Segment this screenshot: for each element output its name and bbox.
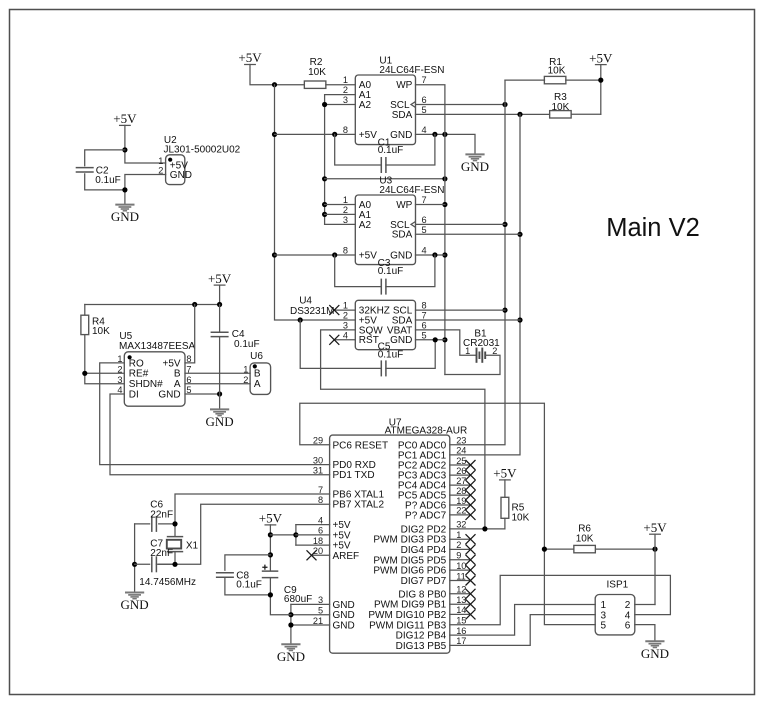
svg-text:8: 8 <box>343 246 348 256</box>
wire U2 pin2 to ground <box>125 175 166 205</box>
wire +5V feed to U7 power rail <box>269 525 271 571</box>
wire SCL rail <box>450 80 505 445</box>
svg-text:10K: 10K <box>576 533 594 544</box>
svg-text:5: 5 <box>601 620 607 631</box>
IC U7 ATMEGA328-AUR <box>330 435 450 653</box>
svg-text:PC6 RESET: PC6 RESET <box>333 440 389 451</box>
svg-text:23: 23 <box>456 436 466 446</box>
resistor R1 10K (SCL pullup) <box>505 79 545 81</box>
svg-text:JL301-50002U02: JL301-50002U02 <box>164 144 241 155</box>
capacitor C3 0.1uF <box>335 255 382 287</box>
wire U7 PB4/MISO to ISP pin1 <box>450 605 595 636</box>
svg-text:+5V: +5V <box>163 358 181 369</box>
power +5V (top left, feeds R2 and EEPROM rail) <box>245 64 256 66</box>
svg-text:1: 1 <box>465 346 470 356</box>
svg-text:PB7 XTAL2: PB7 XTAL2 <box>333 500 385 511</box>
connector U6 <box>250 363 271 395</box>
wire U5 +5V pin8 up to +5V row <box>185 305 195 363</box>
svg-text:15: 15 <box>456 616 466 626</box>
svg-text:6: 6 <box>625 620 631 631</box>
svg-text:U6: U6 <box>250 351 263 362</box>
ground under U1 <box>465 154 484 160</box>
svg-text:WP: WP <box>396 80 412 91</box>
svg-text:GND: GND <box>641 646 669 661</box>
svg-text:9: 9 <box>456 551 461 561</box>
wire U7 PB5/SCK to ISP pin3 <box>450 615 595 646</box>
svg-text:24: 24 <box>456 446 466 456</box>
wire U5 RO down to U7 RXD <box>100 363 330 465</box>
resistor R4 10K <box>84 305 86 316</box>
svg-text:2: 2 <box>343 311 348 321</box>
svg-text:2: 2 <box>158 166 163 176</box>
svg-text:28: 28 <box>456 486 466 496</box>
svg-text:20: 20 <box>313 546 323 556</box>
svg-text:0.1uF: 0.1uF <box>378 349 404 360</box>
wire U4 GND row <box>416 339 445 341</box>
svg-text:4: 4 <box>422 246 427 256</box>
wire U1 SDA row to R3 <box>416 113 550 115</box>
svg-text:32: 32 <box>456 520 466 530</box>
svg-text:26: 26 <box>456 466 466 476</box>
ground under crystal <box>125 593 144 599</box>
wire U4 SCL <box>416 309 506 311</box>
resistor R2 <box>304 81 326 88</box>
no-connect X U4 pin4 RST <box>334 339 355 341</box>
wire U5 A to U6 pin2 <box>185 383 250 385</box>
svg-text:11: 11 <box>456 571 466 581</box>
svg-text:RE#: RE# <box>129 369 149 380</box>
wire U7 PB3/MOSI to ISP pin4 <box>450 575 671 624</box>
svg-text:DIG7 PD7: DIG7 PD7 <box>401 576 447 587</box>
svg-text:0.1uF: 0.1uF <box>378 266 404 277</box>
svg-text:5: 5 <box>318 606 323 616</box>
svg-text:0.1uF: 0.1uF <box>236 580 262 591</box>
svg-text:DIG4 PD4: DIG4 PD4 <box>401 545 447 556</box>
svg-text:DI: DI <box>129 389 139 400</box>
svg-text:GND: GND <box>390 130 412 141</box>
svg-text:1: 1 <box>343 195 348 205</box>
resistor R3 10K (SDA pullup) <box>550 111 572 118</box>
wire U3 A2 <box>325 223 356 225</box>
wire R2 to U1 pin1 <box>326 84 355 86</box>
svg-text:X1: X1 <box>186 541 199 552</box>
wire U7 XTAL2 to crystal bottom rail <box>156 504 329 564</box>
svg-text:+5V: +5V <box>208 271 232 286</box>
wire U1 GND row to ground <box>416 134 476 154</box>
wire U5 B to U6 pin1 <box>185 372 250 374</box>
wire U1 A2 <box>325 104 356 106</box>
svg-text:GND: GND <box>390 250 412 261</box>
svg-text:0.1uF: 0.1uF <box>234 339 260 350</box>
svg-text:14.7456MHz: 14.7456MHz <box>139 577 196 588</box>
svg-text:GND: GND <box>121 597 149 612</box>
svg-text:5: 5 <box>422 330 427 340</box>
power +5V (above C4/U5) <box>214 284 225 286</box>
svg-text:6: 6 <box>422 215 427 225</box>
svg-text:8: 8 <box>422 301 427 311</box>
svg-text:AREF: AREF <box>333 551 360 562</box>
resistor R5 10K <box>501 497 509 518</box>
wire +5V distribution rail <box>275 85 356 320</box>
svg-text:+5V: +5V <box>259 511 283 526</box>
svg-text:13: 13 <box>456 595 466 605</box>
wire U5 RE# row <box>85 372 125 374</box>
svg-text:+5V: +5V <box>643 520 667 535</box>
svg-text:1: 1 <box>158 156 163 166</box>
svg-text:DIG 8 PB0: DIG 8 PB0 <box>398 589 446 600</box>
svg-text:3: 3 <box>318 595 323 605</box>
svg-text:2: 2 <box>343 205 348 215</box>
wire U7 PD2 row <box>450 528 505 530</box>
svg-text:GND: GND <box>333 621 355 632</box>
wire U1 WP / WP-GND rail <box>416 85 445 375</box>
power +5V (above U2) <box>120 124 131 126</box>
wire U7 GND pins rail <box>290 604 292 644</box>
power +5V (above U7) <box>265 524 276 526</box>
svg-text:21: 21 <box>313 616 323 626</box>
svg-text:A2: A2 <box>359 100 372 111</box>
svg-text:1: 1 <box>343 301 348 311</box>
svg-text:0.1uF: 0.1uF <box>378 145 404 156</box>
svg-text:PWM DIG10 PB2: PWM DIG10 PB2 <box>368 610 446 621</box>
svg-text:Main V2: Main V2 <box>606 214 700 242</box>
svg-text:2: 2 <box>492 346 497 356</box>
svg-text:3: 3 <box>343 95 348 105</box>
svg-text:25: 25 <box>456 456 466 466</box>
wire U4 VBAT to battery <box>416 330 477 355</box>
ground under ISP <box>645 641 664 647</box>
wire +5V to ISP pin2 <box>635 604 655 606</box>
wire link address rail to WP/GND rail <box>325 178 445 180</box>
svg-text:10: 10 <box>456 561 466 571</box>
svg-text:680uF: 680uF <box>284 594 312 605</box>
power +5V (above ISP) <box>650 533 661 535</box>
wire address rail (A1/A2 down to U3) <box>324 95 326 225</box>
capacitor C8 0.1uF <box>225 555 271 570</box>
svg-text:1: 1 <box>456 530 461 540</box>
svg-text:16: 16 <box>456 626 466 636</box>
capacitor C9 680uF (polarized) <box>262 571 279 578</box>
connector U2 JL301-50002U02 <box>166 155 185 185</box>
svg-text:24LC64F-ESN: 24LC64F-ESN <box>379 65 444 76</box>
wire U4 SQW to PD2 <box>321 330 485 529</box>
wire U7 RESET to R6/ISP <box>300 403 595 624</box>
svg-text:GND: GND <box>170 170 192 181</box>
svg-text:24LC64F-ESN: 24LC64F-ESN <box>379 185 444 196</box>
capacitor C4 0.1uF <box>219 305 221 332</box>
IC U3 24LC64F-ESN <box>355 195 415 265</box>
svg-text:30: 30 <box>313 455 323 465</box>
svg-text:3: 3 <box>343 320 348 330</box>
svg-text:PD1 TXD: PD1 TXD <box>333 470 375 481</box>
svg-text:22: 22 <box>456 506 466 516</box>
wire U3 SDA <box>416 233 521 235</box>
svg-text:+5V: +5V <box>238 50 262 65</box>
svg-text:A2: A2 <box>359 220 372 231</box>
no-connect X U4 pin1 32KHZ <box>334 309 355 311</box>
svg-text:10K: 10K <box>552 102 570 113</box>
wire <box>250 65 304 85</box>
svg-text:19: 19 <box>456 496 466 506</box>
clock chevron U1 SCL <box>411 102 415 107</box>
ground under U7 <box>281 644 300 650</box>
svg-text:GND: GND <box>390 335 412 346</box>
svg-text:18: 18 <box>313 536 323 546</box>
wire U3 A1 <box>325 213 356 215</box>
wire U3 +5V row <box>275 254 356 256</box>
svg-text:4: 4 <box>343 330 348 340</box>
svg-text:P? ADC7: P? ADC7 <box>405 510 447 521</box>
svg-text:SDA: SDA <box>392 110 413 121</box>
svg-text:5: 5 <box>422 225 427 235</box>
svg-text:RST: RST <box>359 335 379 346</box>
wire U3 GND row <box>416 254 445 256</box>
ground under U2 <box>115 205 134 211</box>
capacitor C6 22nF <box>135 523 150 525</box>
node +5V rail junction at R2 row <box>272 82 277 87</box>
wire SDA rail <box>450 114 520 455</box>
svg-text:SDA: SDA <box>392 230 413 241</box>
resistor R6 10K (RESET pullup) <box>544 548 573 550</box>
svg-text:GND: GND <box>461 159 489 174</box>
svg-text:10K: 10K <box>92 326 110 337</box>
svg-text:7: 7 <box>422 311 427 321</box>
svg-text:PWM DIG6 PD6: PWM DIG6 PD6 <box>373 566 446 577</box>
svg-text:4: 4 <box>422 125 427 135</box>
svg-text:GND: GND <box>158 389 180 400</box>
IC U1 24LC64F-ESN <box>355 75 415 145</box>
ground under C4/U5 <box>210 409 229 415</box>
wire U3 A0 <box>325 204 356 206</box>
svg-text:+5V: +5V <box>113 111 137 126</box>
svg-text:GND: GND <box>206 414 234 429</box>
wire U1 +5V row <box>275 133 356 135</box>
svg-text:ISP1: ISP1 <box>607 580 629 591</box>
capacitor C7 22nF <box>134 524 136 592</box>
svg-text:22nF: 22nF <box>150 510 173 521</box>
svg-text:+5V: +5V <box>493 466 517 481</box>
wire battery negative loop to GND <box>445 355 500 374</box>
power +5V (above R5) <box>500 479 511 481</box>
no-connect X marks on unused U7 pins <box>450 464 471 466</box>
wire U3 SCL <box>416 223 506 225</box>
svg-text:B: B <box>254 369 261 380</box>
svg-text:ATMEGA328-AUR: ATMEGA328-AUR <box>385 426 468 437</box>
IC U5 MAX13487EESA <box>124 352 185 406</box>
capacitor C2 0.1uF <box>76 168 94 172</box>
svg-text:14: 14 <box>456 605 466 615</box>
svg-text:0.1uF: 0.1uF <box>95 175 121 186</box>
wire U1 SCL to rail <box>416 104 506 106</box>
svg-text:17: 17 <box>456 636 466 646</box>
svg-text:29: 29 <box>313 436 323 446</box>
svg-text:WP: WP <box>396 200 412 211</box>
svg-text:GND: GND <box>277 649 305 664</box>
svg-text:A: A <box>254 379 261 390</box>
svg-text:10K: 10K <box>548 65 566 76</box>
IC U4 DS3231M <box>355 300 415 349</box>
svg-text:1: 1 <box>243 364 248 374</box>
svg-text:2: 2 <box>243 375 248 385</box>
wire U5 GND row <box>185 393 220 395</box>
capacitor C1 0.1uF <box>335 134 382 165</box>
svg-text:B: B <box>174 369 181 380</box>
svg-text:6: 6 <box>318 526 323 536</box>
svg-text:3: 3 <box>117 375 122 385</box>
svg-text:8: 8 <box>318 495 323 505</box>
power +5V (top right) <box>596 64 607 66</box>
svg-text:DS3231M: DS3231M <box>290 306 334 317</box>
wire +5V to U2 pin1 and C2 <box>125 125 166 163</box>
svg-text:2: 2 <box>343 85 348 95</box>
crystal X1 14.7456MHz <box>167 537 183 552</box>
svg-text:+5V: +5V <box>589 50 613 65</box>
svg-text:2: 2 <box>456 540 461 550</box>
svg-text:6: 6 <box>422 320 427 330</box>
svg-text:+5V: +5V <box>359 130 377 141</box>
wire U5 DI down to U7 TXD <box>110 394 330 475</box>
svg-text:4: 4 <box>318 515 323 525</box>
svg-text:RO: RO <box>129 358 144 369</box>
svg-text:+5V: +5V <box>359 250 377 261</box>
svg-text:GND: GND <box>111 209 139 224</box>
svg-text:27: 27 <box>456 476 466 486</box>
wire U4 SDA <box>416 319 521 321</box>
battery B1 CR2031 <box>477 348 486 363</box>
wire U7 +5V pins rail <box>295 525 297 546</box>
svg-text:5: 5 <box>422 105 427 115</box>
wire +5V row to R4 and U5 pin8 <box>85 304 220 306</box>
svg-text:8: 8 <box>343 125 348 135</box>
svg-text:10K: 10K <box>308 67 326 78</box>
svg-text:1: 1 <box>343 75 348 85</box>
svg-text:22nF: 22nF <box>150 548 173 559</box>
wire U7 XTAL1 to crystal <box>175 494 330 536</box>
svg-text:6: 6 <box>422 95 427 105</box>
svg-text:2: 2 <box>117 364 122 374</box>
wire ISP pin6 to ground <box>635 625 655 642</box>
capacitor C5 0.1uF <box>300 320 381 368</box>
svg-text:10K: 10K <box>512 512 530 523</box>
svg-text:12: 12 <box>456 585 466 595</box>
svg-text:31: 31 <box>313 466 323 476</box>
svg-text:7: 7 <box>422 75 427 85</box>
connector ISP1 <box>595 595 635 635</box>
svg-text:7: 7 <box>318 485 323 495</box>
no-connect X U7 AREF <box>312 554 330 556</box>
svg-text:7: 7 <box>422 195 427 205</box>
wire U3 WP <box>416 204 445 206</box>
svg-text:MAX13487EESA: MAX13487EESA <box>119 341 195 352</box>
svg-text:DIG13 PB5: DIG13 PB5 <box>396 641 447 652</box>
wire U1 A1 <box>325 94 356 96</box>
svg-text:3: 3 <box>343 215 348 225</box>
